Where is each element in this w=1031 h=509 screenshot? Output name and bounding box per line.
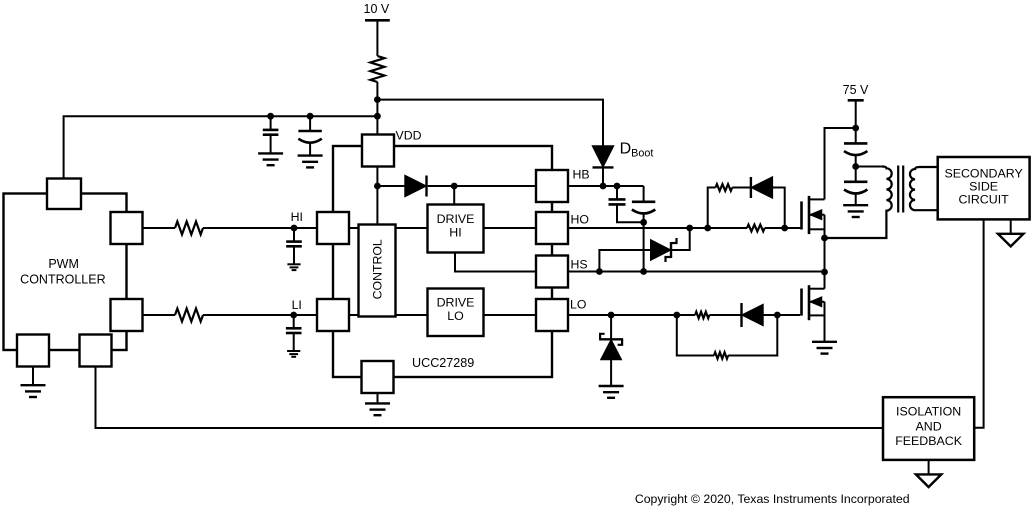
wire LO speedup branch [677,315,714,356]
svg-text:LO: LO [570,297,586,311]
zener Z2 cathode bar [599,338,623,340]
svg-text:HI: HI [449,226,461,240]
diode D1 (internal bootstrap) [405,176,425,196]
transistor Q1 source stub [809,228,825,230]
wire Q1 source to switch node [824,215,826,289]
wire 10V bar to resistor [376,20,378,56]
PWM controller outline [4,194,127,351]
node LO branch left [673,312,680,319]
wire Q1 drain riser [825,128,856,199]
node bypass cap C2 tap [307,113,314,120]
svg-text:PWM: PWM [48,257,79,271]
transistor Q2 channel bar [808,285,811,320]
wire HS line [568,271,825,273]
capacitor C8 (bus, polarized) [844,181,867,184]
wire boot cap C5 bottom elbow [617,204,644,222]
svg-text:SIDE: SIDE [969,180,998,194]
SECONDARY SIDE CIRCUIT block [938,157,1030,219]
zener Z1 cathode bar [670,242,672,258]
node VDD boot branch [374,96,381,103]
svg-text:CONTROLLER: CONTROLLER [20,272,105,286]
ISOLATION AND FEEDBACK block [883,397,974,460]
wire C7 to C8 [855,155,857,182]
svg-text:DRIVE: DRIVE [437,295,475,309]
pin box U1 VSS [362,361,394,393]
wire R4 to gate [765,227,801,229]
wire R2 to HI pin [203,227,317,229]
wire boot diode cathode to HB [428,185,536,187]
svg-text:HB: HB [573,167,590,181]
zener Z2 triangle [601,341,620,360]
transistor Q1 gate bar [800,201,803,229]
node HO branch right [781,225,788,232]
wire internal HB to DRIVE HI [453,186,455,205]
pin box U1 HI [317,212,349,244]
wire HB pin line [568,185,644,187]
node HS boot cap junction [640,268,647,275]
wire C2 bottom lead [309,143,311,156]
wire Q2 source to ground [824,302,826,342]
wire R3 to LI pin [203,314,317,316]
wire CONTROL to DRIVE HI [396,227,428,229]
svg-text:HO: HO [571,212,589,226]
diode DBoot [593,146,613,166]
wire 75V to bus caps [855,100,857,143]
transistor Q2 gate bar [800,289,803,316]
wire C2 top lead [309,116,311,131]
wire boot cap C5 top lead [616,186,618,199]
CONTROL block [359,225,396,317]
pin box U1 LO [536,299,568,331]
node internal VDD to boot diode [374,183,381,190]
resistor R3 (LI series) [175,309,203,322]
wire DRIVE HI to HS pin [455,253,536,272]
wire LI pin to CONTROL [349,314,359,316]
capacitor C4 (LI filter) [286,327,302,330]
capacitor C7 (bus, polarized) [844,142,867,145]
svg-text:UCC27289: UCC27289 [412,356,474,370]
diode D2 (HO speedup) [750,177,752,198]
capacitor C5 (bootstrap) [609,198,626,201]
svg-text:HS: HS [571,258,588,272]
node switch node HS tap [821,269,828,276]
wire R7 to right riser [728,315,777,356]
wire zener Z1 anode branch [599,250,651,272]
transistor Q2 body stub with arrow [809,301,825,303]
wire VSS pin to ground [377,393,379,403]
wire VDD node to DBoot [377,100,603,147]
wire primary top lead [856,166,882,168]
node HI [291,225,298,232]
ground under PWM [21,384,46,386]
wire C8 to ground [855,193,857,205]
wire boot cap C6 top lead [643,186,645,202]
node HB DBoot junction [600,183,607,190]
svg-text:ISOLATION: ISOLATION [896,404,961,418]
wire VDD internal rail [376,167,378,225]
resistor R6 (LO gate) [695,312,709,318]
svg-text:75 V: 75 V [843,83,869,97]
pin box PWM VDD (top) [47,179,81,210]
wire C3 to ground [293,246,295,264]
supply rail bar 10 V [365,19,390,22]
svg-text:LI: LI [292,298,302,312]
wire C1 top lead [270,116,272,130]
pin box PWM GND [17,335,49,367]
node LO zener tap [608,312,615,319]
svg-text:DRIVE: DRIVE [437,212,475,226]
ground under C1 [258,152,283,154]
wire HO gate lead [800,227,801,229]
signal ground under isolation [916,474,941,487]
svg-text:Copyright © 2020, Texas Instru: Copyright © 2020, Texas Instruments Inco… [635,492,910,506]
resistor R5 (HO speedup) [716,184,733,191]
wire LO line [568,314,695,316]
wire HO speedup branch left riser [708,188,716,229]
ground under Z2 [599,385,624,387]
signal ground under secondary [998,234,1023,247]
wire secondary signal ground stem [1010,219,1012,233]
pin box PWM HI out [111,212,143,244]
node boot cap junction [640,219,647,226]
ground under Q2 [812,341,837,343]
node HS zener tap [596,268,603,275]
supply rail bar 75 V [848,99,864,102]
node 75V drain tap [852,125,859,132]
pin box PWM LI out [111,299,143,331]
svg-text:LO: LO [447,309,464,323]
node HB cap junction [614,183,621,190]
pin box U1 HS [536,256,568,288]
node LO branch right [774,312,781,319]
pin box U1 LI [317,299,349,331]
svg-text:FEEDBACK: FEEDBACK [895,434,963,448]
node 75V transformer tap [852,163,859,170]
wire D2 to right riser [773,188,785,229]
svg-text:HI: HI [291,210,303,224]
zener Z1 triangle [651,240,670,259]
node internal HB [451,183,458,190]
resistor R2 (HI series) [175,222,203,235]
node switch node transformer tap [821,235,828,242]
wire HI filter cap lead [293,228,295,241]
transformer T1 primary winding [825,167,892,239]
wire DRIVE LO to LO pin [484,314,537,316]
transistor Q1 channel bar [808,196,811,234]
svg-text:VDD: VDD [396,128,422,142]
wire boot caps to HS [643,213,645,271]
svg-text:10 V: 10 V [364,2,390,16]
transformer T1 secondary winding [910,167,938,210]
wire resistor to VDD node [376,82,378,135]
node VDD bypass rail [374,113,381,120]
pin box U1 VDD [362,135,394,167]
svg-text:SECONDARY: SECONDARY [944,166,1022,180]
wire zener Z1 cathode to HO [671,228,690,250]
DRIVE LO block [428,289,484,337]
node HO zener tap [686,225,693,232]
node LI [290,312,297,319]
wire R5 to D2 [732,187,750,189]
svg-text:CONTROL: CONTROL [370,239,384,299]
capacitor C2 (polarized) [298,130,321,133]
pin box U1 HO [536,212,568,244]
transistor Q2 source stub [809,314,825,316]
transistor Q1 body stub with arrow [809,214,825,216]
wire PWM GND pin to ground [32,367,34,386]
wire DBoot cathode to HB line [602,167,604,186]
pin box U1 HB [536,170,568,202]
wire DRIVE HI to HO pin [484,227,537,229]
wire HI pin to CONTROL [349,227,359,229]
op-amp U1 UCC27289 outline [333,146,552,377]
wire LI filter cap lead [293,315,295,328]
ground under C2 [298,154,323,156]
transistor Q2 drain stub [809,288,825,290]
wire isolation signal ground stem [928,460,930,475]
wire CONTROL to DRIVE LO [396,314,428,316]
wire R6 to D3 [709,314,741,316]
wire C1 bottom lead [270,135,272,154]
wire boot diode anode lead [377,185,405,187]
wire zener Z2 anode to ground [610,359,612,386]
wire VDD bypass rail to PWM [64,116,378,178]
svg-text:AND: AND [916,420,942,434]
resistor R1 (VDD series) [370,56,384,82]
ground under U1 VSS [365,402,390,404]
diode D3 (LO gate) [740,303,742,327]
node bypass cap C1 tap [267,113,274,120]
wire C4 to ground [293,333,295,351]
transformer T1 core [897,166,899,213]
wire D3 to gate [763,314,800,316]
node HO branch left [704,225,711,232]
pin box PWM FB in [80,335,112,367]
transistor Q1 drain stub [809,198,825,200]
wire secondary to isolation feedback [974,219,983,427]
resistor R4 (HO gate) [747,225,765,232]
resistor R7 (LO speedup) [714,352,728,358]
capacitor C1 [263,129,279,132]
capacitor C3 (HI filter) [286,240,302,243]
wire PWM HI out lead [143,227,176,229]
svg-text:CIRCUIT: CIRCUIT [958,193,1009,207]
wire feedback line [96,367,884,429]
wire zener Z2 cathode lead [610,315,612,339]
wire PWM LI out lead [143,314,176,316]
wire HO line [568,227,747,229]
capacitor C6 (bootstrap polarized) [632,201,655,204]
ground under bus caps [843,204,868,206]
ground under C4 [287,350,300,352]
ground under C3 [287,263,300,265]
DRIVE HI block [428,205,484,253]
